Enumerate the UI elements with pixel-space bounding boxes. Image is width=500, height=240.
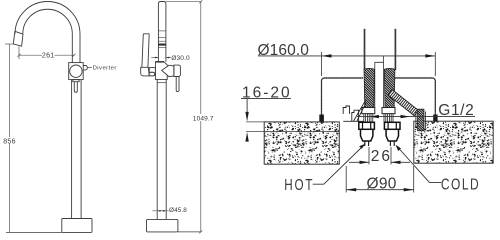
handle cone pentagon	[162, 65, 174, 76]
svg-text:Ø45.8: Ø45.8	[169, 207, 187, 214]
bracket small step far left	[343, 106, 349, 114]
dia160 ext line left	[321, 52, 323, 76]
column	[72, 80, 82, 219]
left slab finish line	[264, 131, 339, 133]
svg-text:HOT: HOT	[284, 175, 314, 193]
dia160 left arrow	[322, 54, 332, 57]
riser dark band	[158, 44, 166, 46]
svg-text:261: 261	[42, 52, 55, 59]
dia30 dim left segment	[151, 57, 158, 59]
svg-text:Diverter: Diverter	[93, 65, 117, 71]
text 1049.7	[194, 114, 213, 121]
cover left foot	[319, 115, 324, 122]
dia45.8 left arrow	[157, 210, 160, 212]
diverter knob	[83, 66, 87, 70]
height dim line 856	[9, 44, 11, 232]
ground line	[178, 231, 201, 233]
riser detail line 3	[158, 40, 166, 42]
svg-text:856: 856	[3, 138, 16, 145]
handle rod	[176, 77, 179, 92]
G1/2 leader line	[357, 116, 475, 118]
dim 26 ext line left	[368, 147, 370, 165]
gooseneck spout inner arc	[23, 9, 73, 62]
16-20 ext line bottom	[246, 131, 264, 133]
16-20 leader vertical	[246, 98, 248, 112]
left shank hatched	[364, 68, 375, 107]
dia45.8 right arrow	[163, 210, 166, 212]
diverter leader	[88, 67, 92, 69]
right hose connector below floor	[384, 122, 400, 146]
supply pipe right	[394, 29, 396, 70]
svg-text:COLD: COLD	[441, 175, 480, 193]
dia30 left arrow	[155, 57, 158, 59]
holder ellipse	[149, 72, 155, 76]
gooseneck spout outer arc	[15, 2, 80, 63]
cover escutcheon outline	[322, 78, 436, 121]
left mounting nut	[362, 108, 375, 114]
left slab	[264, 122, 339, 164]
261 tick right	[73, 54, 76, 57]
svg-text:Ø30.0: Ø30.0	[171, 55, 190, 62]
tee body	[155, 62, 167, 80]
dim 26 line right	[391, 161, 410, 163]
dia160 right arrow	[425, 54, 435, 57]
central tube	[375, 56, 384, 108]
dia90 left arrow	[346, 188, 356, 191]
left hose connector below floor	[359, 122, 375, 146]
dia160 ext line right	[434, 52, 436, 76]
COLD leader	[398, 148, 441, 183]
valve body	[69, 63, 84, 80]
spout tip aerator	[13, 31, 23, 46]
16-20 up arrow	[245, 132, 248, 142]
handshower wand	[142, 34, 149, 68]
HOT leader arrowhead	[359, 144, 365, 149]
riser detail line 2	[158, 37, 166, 39]
text dia45.8	[169, 206, 182, 212]
text 856	[3, 137, 16, 144]
riser tube	[158, 2, 166, 62]
bracket diagonal braces	[354, 99, 367, 121]
handle collar	[73, 80, 79, 82]
svg-text:Ø90: Ø90	[367, 175, 397, 192]
261 tick left	[18, 54, 21, 57]
dia90 dim line	[346, 189, 414, 191]
16-20 down arrow	[245, 112, 248, 122]
26 left arrow	[360, 161, 370, 164]
height dim bottom tick	[199, 230, 202, 233]
16-20 ext line top	[246, 121, 264, 123]
G1/2 right arrow	[401, 115, 411, 118]
tee top thick line	[155, 61, 164, 63]
dia30 dim right segment	[166, 57, 171, 59]
svg-text:16-20: 16-20	[242, 85, 292, 102]
valve circle	[70, 65, 82, 77]
dim 26 line left	[349, 161, 369, 163]
supply pipe left	[364, 29, 366, 70]
column collar line	[157, 82, 166, 84]
right shank hatched	[384, 68, 395, 107]
dia30 right arrow	[166, 57, 169, 59]
left threaded stud	[364, 114, 373, 122]
height dim top connector	[166, 1, 201, 3]
dim dia160 line	[258, 55, 435, 57]
mounting bracket block left	[343, 99, 366, 121]
dia45.8 dim line	[152, 210, 180, 212]
261 ext line	[18, 47, 20, 60]
G1/2 left arrow	[369, 115, 379, 118]
svg-text:26: 26	[371, 148, 392, 165]
dia90 right arrow	[404, 188, 414, 191]
HOT leader	[313, 147, 363, 185]
right mounting nut	[382, 108, 395, 114]
text 261	[42, 52, 55, 58]
holder cup	[141, 67, 150, 76]
height dim line 1049.7	[200, 2, 202, 232]
holder arm	[149, 68, 155, 76]
handle stem	[74, 82, 77, 93]
svg-text:1049.7: 1049.7	[193, 115, 214, 122]
cover right foot	[433, 115, 437, 122]
right threaded stud	[384, 114, 393, 122]
height dim top tick	[5, 43, 14, 45]
dim 26 ext line right	[390, 147, 392, 165]
COLD leader arrowhead	[396, 145, 402, 151]
hose band	[388, 90, 418, 116]
ground line	[6, 231, 62, 233]
16-20 underline	[241, 97, 291, 99]
column below tee	[157, 79, 166, 219]
26 right arrow	[391, 161, 401, 164]
base	[62, 219, 92, 233]
hose flange	[416, 109, 426, 131]
riser detail line 4	[158, 47, 166, 49]
floor line inside cover	[343, 120, 364, 122]
dim dia90 ext right	[413, 166, 415, 193]
261 dim line	[19, 54, 74, 56]
base	[147, 219, 178, 232]
height dim top tick	[199, 0, 202, 3]
svg-text:Ø160.0: Ø160.0	[258, 42, 310, 59]
riser detail line 1	[158, 30, 166, 32]
dim dia90 ext left	[345, 166, 347, 193]
right slab	[414, 121, 493, 163]
handle grip	[174, 65, 180, 76]
